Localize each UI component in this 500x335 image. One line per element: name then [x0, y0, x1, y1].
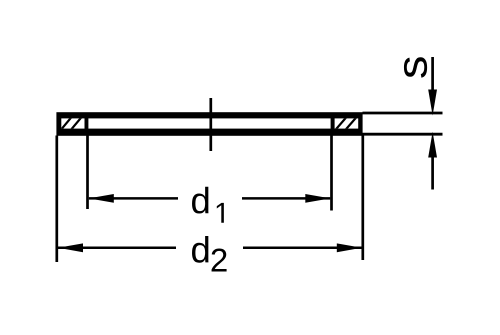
extension line d2 left — [55, 136, 58, 263]
arrowhead s lower — [428, 132, 437, 158]
arrowhead d1 left — [89, 194, 114, 203]
washer left ring section interior — [61, 118, 84, 128]
dimension line d2 right segment — [243, 247, 362, 250]
arrowhead d2 left — [58, 243, 83, 252]
dimension line d1 left segment — [89, 197, 178, 200]
extension line d1 right — [330, 136, 333, 211]
dimension line s upper — [431, 57, 434, 93]
arrowhead d2 right — [337, 243, 362, 252]
hatching right section — [334, 116, 358, 132]
dimension line d2 left segment — [58, 247, 176, 250]
washer right ring section interior — [335, 118, 359, 128]
arrowhead s upper — [428, 90, 437, 116]
extension line d2 right — [361, 136, 364, 261]
extension line s top — [363, 112, 443, 115]
dimension line d1 right segment — [242, 197, 330, 200]
extension line d1 left — [86, 136, 89, 210]
label s — [404, 57, 427, 78]
hatching left section — [60, 116, 83, 132]
washer hole interior — [88, 118, 330, 128]
extension line s bottom — [363, 133, 443, 136]
label d2 — [192, 236, 208, 263]
centerline — [209, 98, 212, 151]
dimension line s lower — [431, 158, 434, 190]
label d1 — [192, 187, 208, 214]
washer body outline — [56, 112, 362, 136]
arrowhead d1 right — [305, 194, 330, 203]
